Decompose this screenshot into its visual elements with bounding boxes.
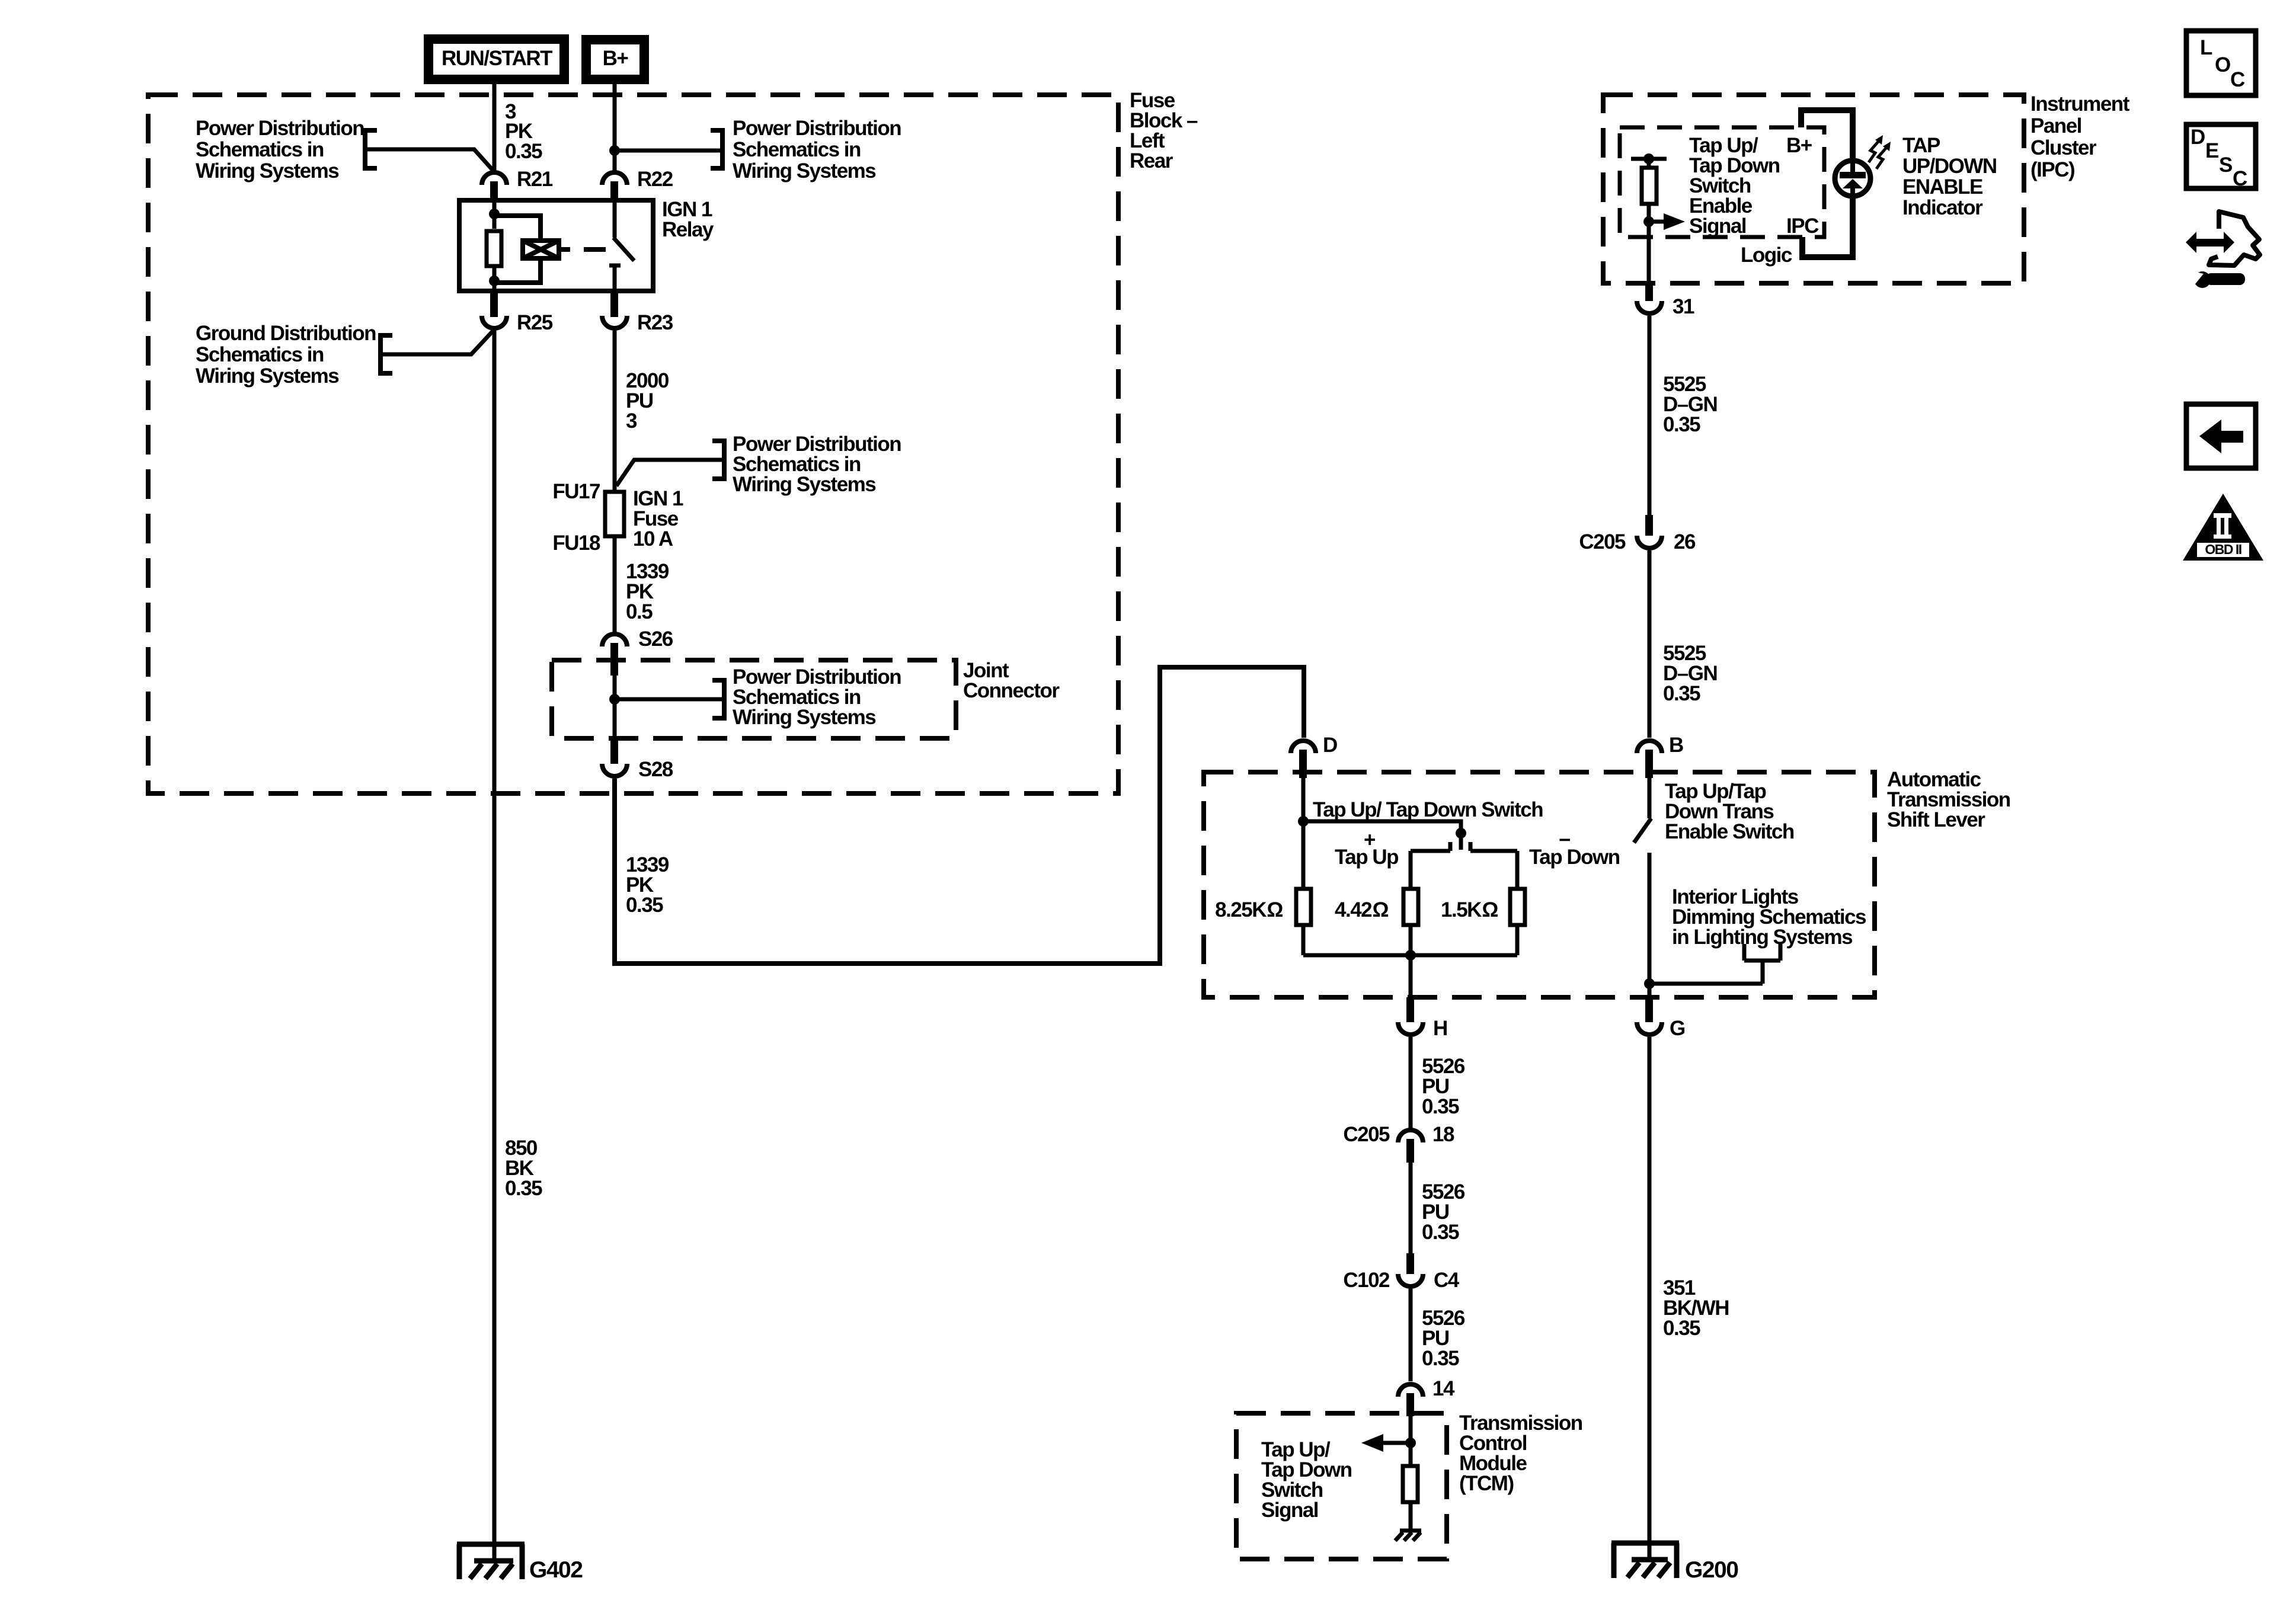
svg-text:Enable Switch: Enable Switch (1665, 820, 1794, 843)
svg-text:Signal: Signal (1689, 215, 1746, 238)
joint connector dashed box (552, 660, 956, 738)
svg-text:8.25K Ω: 8.25K Ω (1215, 898, 1283, 921)
destination text Power Distribution (left) (196, 117, 364, 183)
resistor 4.42 (1403, 889, 1418, 925)
icon back arrow box (2186, 404, 2256, 468)
svg-text:B+: B+ (1786, 134, 1812, 157)
svg-text:Wiring Systems: Wiring Systems (733, 706, 876, 729)
svg-text:R23: R23 (637, 311, 673, 334)
IPC thick wire loop B+ to LED to logic (1801, 110, 1853, 257)
svg-text:R21: R21 (517, 168, 553, 191)
wire G down to G200 (1648, 1037, 1652, 1560)
IPC internal junction top (1643, 153, 1654, 164)
svg-text:Logic: Logic (1741, 244, 1792, 267)
power feed box B+ (581, 35, 649, 84)
svg-text:Rear: Rear (1130, 149, 1173, 172)
svg-text:0.5: 0.5 (626, 600, 653, 623)
junction on B+ wire (609, 145, 620, 156)
TCM internal resistor (1403, 1466, 1418, 1502)
junction dots on coil branch (489, 209, 500, 219)
connector R21 (482, 172, 507, 185)
resistor 1.5K (1510, 889, 1525, 925)
wire label 1339 PK 0.5 (626, 560, 669, 623)
svg-text:31: 31 (1673, 295, 1694, 318)
bracket for Power Distribution left (365, 128, 377, 171)
icon LOC box (2186, 31, 2256, 95)
TCM internal ground (1395, 1531, 1421, 1541)
bracket for interior lights dimming (1744, 944, 1780, 984)
svg-text:18: 18 (1432, 1123, 1454, 1146)
svg-text:0.35: 0.35 (505, 140, 542, 163)
destination text Power Distribution (joint connector) (733, 665, 901, 729)
wire to Power Distribution bracket (joint connector) (615, 697, 722, 702)
connector 14 (1398, 1384, 1423, 1397)
connector S28 (610, 738, 618, 764)
svg-text:10 A: 10 A (633, 527, 673, 550)
wire label 3 PK 0.35 (505, 100, 542, 163)
IPC internal junction signal (1643, 216, 1654, 227)
svg-text:Wiring Systems: Wiring Systems (733, 473, 876, 496)
svg-text:G200: G200 (1685, 1557, 1738, 1583)
wire from bracket to RUN/START wire (365, 149, 494, 172)
destination text Power Distribution (fuse) (733, 433, 901, 496)
svg-text:Schematics in: Schematics in (196, 343, 324, 366)
IPC pin label IPC (1786, 215, 1819, 238)
svg-text:0.35: 0.35 (1422, 1347, 1459, 1370)
TCM internal junction (1405, 1438, 1416, 1448)
connector R22 (602, 172, 627, 185)
wire label 5526 PU 0.35 second (1422, 1180, 1465, 1244)
TCM internal signal text (1261, 1438, 1352, 1522)
connector B (1637, 741, 1662, 753)
svg-text:26: 26 (1674, 530, 1696, 553)
relay solenoid box-X element (523, 241, 559, 258)
svg-text:R25: R25 (517, 311, 553, 334)
svg-text:TAP: TAP (1902, 134, 1940, 157)
svg-text:E: E (2205, 139, 2218, 162)
svg-text:S: S (2219, 153, 2232, 177)
switch common pole stub (1459, 833, 1463, 850)
ground G402 (457, 1544, 525, 1579)
ground G200 (1611, 1543, 1679, 1578)
svg-text:4.42 Ω: 4.42 Ω (1335, 898, 1389, 921)
enable switch wire upper (1648, 778, 1652, 818)
enable switch wire lower to G (1648, 853, 1652, 1000)
svg-text:C4: C4 (1434, 1269, 1460, 1292)
svg-text:G402: G402 (529, 1557, 583, 1583)
relay switch (609, 200, 634, 291)
svg-text:C205: C205 (1343, 1123, 1390, 1146)
svg-text:Indicator: Indicator (1902, 196, 1983, 219)
tap up/tap down trans enable switch label (1665, 780, 1794, 843)
svg-text:FU17: FU17 (552, 480, 600, 503)
IPC inner text tap up/tap down switch enable signal (1689, 134, 1780, 238)
wire R23 down to fuse (613, 331, 617, 490)
connector H (1406, 997, 1414, 1022)
relay IGN 1 box (459, 200, 653, 291)
svg-text:FU18: FU18 (552, 532, 600, 555)
svg-text:Schematics in: Schematics in (733, 138, 861, 161)
tap up/tap down switch label (1313, 798, 1543, 821)
svg-text:Relay: Relay (662, 218, 714, 241)
connector S26 (602, 634, 627, 646)
automatic transmission shift lever dashed box (1204, 772, 1875, 997)
node D junction (1298, 816, 1309, 827)
svg-text:Instrument: Instrument (2030, 92, 2130, 116)
svg-text:14: 14 (1432, 1377, 1455, 1400)
svg-text:UP/DOWN: UP/DOWN (1902, 155, 1997, 178)
svg-text:O: O (2215, 53, 2230, 76)
bracket for Ground Distribution (380, 333, 392, 376)
wires resistors to bottom node (1303, 927, 1517, 955)
wire C205 18 down to C102 (1409, 1163, 1413, 1253)
svg-text:H: H (1433, 1017, 1447, 1040)
svg-text:Tap Up: Tap Up (1335, 846, 1398, 869)
LED indicator circle (1835, 161, 1870, 196)
connector D (1291, 741, 1316, 753)
wire S28 down, right, up to D (615, 667, 1304, 964)
svg-text:B+: B+ (603, 47, 629, 70)
svg-text:0.35: 0.35 (1422, 1095, 1459, 1118)
svg-text:S26: S26 (638, 628, 673, 651)
junction on G wire (1644, 978, 1655, 989)
connector 31 (1645, 283, 1653, 301)
icon OBD II triangle (2183, 494, 2263, 561)
destination text Power Distribution (right of B+) (733, 117, 901, 183)
IPC inner logic dashed box (1620, 127, 1824, 237)
IPC label Logic (1741, 244, 1792, 267)
wire inside joint connector (613, 676, 617, 738)
svg-text:Ground Distribution: Ground Distribution (196, 322, 376, 345)
svg-text:R22: R22 (637, 168, 673, 191)
TAP UP/DOWN ENABLE indicator label (1902, 134, 1997, 219)
IPC internal pull-up T bar (1631, 157, 1667, 161)
svg-text:3: 3 (626, 409, 637, 433)
connector C102 pin C4 (1406, 1253, 1414, 1274)
svg-text:0.35: 0.35 (626, 894, 663, 917)
svg-text:0.35: 0.35 (1663, 413, 1700, 436)
destination text Ground Distribution (196, 322, 376, 388)
wire to Power Distribution bracket (right) (615, 149, 721, 153)
svg-text:Wiring Systems: Wiring Systems (733, 159, 876, 183)
connector R23 (610, 291, 618, 317)
svg-text:L: L (2200, 36, 2212, 59)
svg-text:(TCM): (TCM) (1459, 1472, 1514, 1495)
svg-text:0.35: 0.35 (1422, 1221, 1459, 1244)
fuse block - left rear dashed box (148, 95, 1118, 793)
connector R25 (490, 291, 498, 317)
wire left main ground run down to G402 (493, 331, 497, 1561)
LED anode triangle (1843, 179, 1863, 188)
connector C205 pin 26 (1645, 515, 1653, 536)
wire B+ feed down to R22 (613, 84, 617, 171)
power feed box RUN/START (424, 34, 569, 84)
TCM dashed box (1236, 1413, 1447, 1559)
relay coil parallel loop wires (494, 216, 541, 283)
svg-text:D: D (1323, 734, 1337, 757)
bottom node line (1303, 953, 1517, 958)
svg-text:C: C (2230, 68, 2245, 91)
wire C205 down to B (1648, 550, 1652, 738)
resistor 8.25K (1296, 889, 1311, 925)
plus tap up label (1335, 828, 1398, 869)
svg-text:Tap Up/ Tap Down Switch: Tap Up/ Tap Down Switch (1313, 798, 1543, 821)
svg-text:Power Distribution: Power Distribution (733, 117, 901, 140)
wire from bracket up to left main wire (380, 329, 494, 354)
switch common junction (1456, 828, 1466, 838)
svg-text:in Lighting Systems: in Lighting Systems (1672, 926, 1853, 949)
switch right contact tap down (1470, 842, 1517, 851)
svg-text:Tap Down: Tap Down (1529, 846, 1620, 869)
minus tap down label (1529, 828, 1620, 869)
icon vehicle diagnostic arrow and wrench (2186, 232, 2234, 253)
IPC signal arrow (1649, 220, 1665, 224)
junction in joint connector (609, 694, 620, 705)
svg-text:Wiring Systems: Wiring Systems (196, 364, 339, 388)
svg-text:Power Distribution: Power Distribution (196, 117, 364, 140)
wire node down to H (1409, 955, 1413, 1000)
TCM internal wire (1409, 1416, 1413, 1464)
switch left contact tap up (1411, 842, 1450, 851)
wire 31 down to C205 (1648, 316, 1652, 515)
bracket for Power Distribution right (711, 128, 722, 171)
svg-text:Connector: Connector (963, 679, 1060, 702)
wire label 5525 D-GN 0.35 (1663, 373, 1717, 436)
svg-text:1.5K Ω: 1.5K Ω (1441, 898, 1498, 921)
bracket for Power Distribution at fuse (712, 438, 724, 481)
svg-text:Cluster: Cluster (2030, 136, 2097, 159)
IPC internal resistor (1642, 168, 1657, 204)
bottom node junction (1405, 950, 1416, 961)
wire label 1339 PK 0.35 (626, 853, 669, 917)
solenoid actuator stub and dashed link (561, 247, 606, 252)
connector C205 pin 18 (1398, 1130, 1423, 1142)
relay coil branch wire (493, 200, 497, 291)
svg-text:ENABLE: ENABLE (1902, 175, 1982, 199)
svg-text:(IPC): (IPC) (2030, 158, 2074, 181)
wire to 4.42 resistor (1409, 851, 1413, 887)
svg-text:C205: C205 (1579, 530, 1626, 553)
instrument panel cluster dashed box (1603, 95, 2024, 283)
relay coil resistor (487, 231, 501, 266)
svg-text:0.35: 0.35 (1663, 682, 1700, 705)
svg-text:S28: S28 (638, 758, 673, 781)
bracket for Power Distribution joint connector (712, 678, 724, 721)
interior lights dimming text (1672, 885, 1866, 949)
wire RUN/START feed down to R21 (493, 84, 497, 171)
TCM signal arrow left (1383, 1441, 1411, 1445)
svg-text:Schematics in: Schematics in (196, 138, 324, 161)
svg-text:C102: C102 (1343, 1269, 1390, 1292)
wire to 1.5K resistor (1515, 851, 1520, 887)
wire label 5526 PU 0.35 (1422, 1055, 1465, 1118)
wire C102 down to 14 (1409, 1289, 1413, 1381)
wire junction to bracket (1649, 982, 1763, 986)
IPC pin label B+ (1786, 134, 1812, 157)
wire label 850 BK 0.35 (505, 1137, 542, 1200)
fuse IGN 1 FU17/FU18 (605, 492, 624, 536)
TCM wire resistor to ground (1409, 1502, 1413, 1531)
svg-text:B: B (1669, 734, 1683, 757)
svg-text:Panel: Panel (2030, 114, 2081, 137)
wire D into switch network (1302, 778, 1306, 887)
svg-text:0.35: 0.35 (505, 1177, 542, 1200)
svg-text:C: C (2233, 167, 2247, 190)
svg-text:0.35: 0.35 (1663, 1317, 1700, 1340)
wire label 5526 PU 0.35 third (1422, 1307, 1465, 1370)
svg-text:D: D (2191, 126, 2205, 149)
diagonal and wire to Power Distribution bracket at fuse (616, 460, 722, 486)
svg-text:Signal: Signal (1261, 1499, 1318, 1522)
wire H down to C205 18 (1409, 1037, 1413, 1129)
TCM label (1459, 1411, 1582, 1495)
svg-text:RUN/START: RUN/START (442, 47, 552, 70)
LED light rays lightning arrows (1869, 141, 1879, 162)
svg-text:Wiring Systems: Wiring Systems (196, 159, 339, 183)
fuse block label (1130, 89, 1198, 172)
wire top node line to switch common (1303, 821, 1461, 833)
icon DESC box (2186, 124, 2256, 188)
enable switch blade (1634, 818, 1651, 843)
connector G (1645, 997, 1653, 1022)
LED cathode bar (1840, 172, 1866, 178)
wire label 351 BK/WH 0.35 (1663, 1276, 1729, 1340)
svg-text:G: G (1670, 1017, 1685, 1040)
wire label 2000 PU 3 (626, 369, 669, 433)
IPC internal wires (1647, 159, 1651, 283)
wire label 5525 D-GN 0.35 second (1663, 642, 1717, 705)
svg-text:OBD II: OBD II (2205, 542, 2241, 557)
wire fuse down to S26 (613, 538, 617, 632)
svg-text:IPC: IPC (1786, 215, 1819, 238)
svg-text:Shift Lever: Shift Lever (1887, 808, 1985, 831)
LED wire through (1850, 162, 1855, 195)
